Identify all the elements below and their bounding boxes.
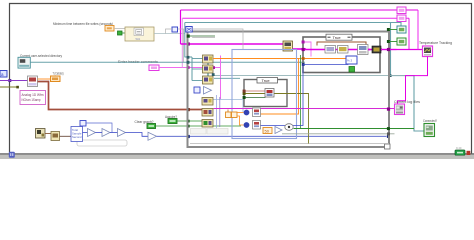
wire T2 to T3: [110, 132, 118, 134]
node6 write file icon: [358, 45, 369, 55]
outer diagram frame: [10, 4, 472, 154]
dark VI icon A: [36, 129, 46, 139]
blue wire C to T1: [83, 132, 88, 134]
wire: node to T terminal (orange): [38, 78, 51, 80]
teal junction dot: [212, 73, 215, 76]
pink string wire across into loop: [159, 67, 221, 69]
express VI (Write To Measurement File style): [125, 27, 154, 41]
magenta continue to right tunnel: [368, 49, 380, 51]
svg-text:%.3: %.3: [347, 59, 353, 63]
triangle node beside: [204, 87, 212, 95]
chart terminal icon: [423, 46, 433, 57]
blue wire T4 into loop and across: [157, 135, 387, 137]
node N5 (bundle) on magenta wire: [283, 41, 293, 51]
olive error wire from left edge, turns down: [0, 86, 19, 88]
blue timing box 2 on loop corner: [186, 27, 192, 33]
loop border tunnels left: [187, 61, 190, 64]
red waveform branch into case1: [246, 90, 266, 92]
string control terminal (pink): [149, 65, 159, 71]
gray vertical x183.5: [183, 29, 185, 62]
white node W1: [253, 108, 261, 117]
horizontal scrollbar left blue icon: [9, 152, 15, 158]
indicator stack node 1 (magenta): [397, 7, 406, 14]
magenta wire N5 to case2: [293, 48, 307, 50]
lavender vertical: [216, 95, 218, 130]
thick magenta horizontal y44: [181, 43, 284, 45]
triangle node T4: [148, 132, 157, 140]
green tunnels on loop right border: [387, 28, 390, 31]
purple DAQmx task wire from left edge: [8, 79, 11, 82]
wire A to B: [45, 133, 51, 135]
gray bottom wire: [190, 143, 389, 145]
svg-text:True: True: [333, 35, 342, 40]
brown wire arc inside case2: [317, 42, 366, 46]
wire: orange const to express VI: [114, 28, 125, 30]
current log files icon: [395, 104, 405, 115]
orange wire into format box: [305, 58, 347, 60]
path indicator icon: [18, 57, 30, 68]
magenta wire y108.5 to current log files: [214, 108, 395, 110]
triangle node T1: [88, 129, 96, 137]
svg-text:Second: Second: [72, 135, 82, 139]
svg-text:50: 50: [265, 129, 270, 134]
violet/pink horizontal (y16.5): [182, 17, 409, 19]
pink wire inside case2: [305, 42, 312, 57]
wire box1 to box2: [178, 28, 187, 30]
olive wire through case1: [246, 93, 266, 95]
dark node on case2 right border: [372, 46, 381, 53]
long teal path wire from directory (y62.3): [31, 61, 306, 63]
orange wires to D nodes: [237, 112, 244, 114]
blue oval D2: [244, 122, 250, 128]
pink vertical bus right of column: [220, 56, 222, 100]
vertical lavender x182.3: [181, 18, 183, 67]
boolean constant (green): [118, 31, 123, 35]
two small orange boxes: [226, 112, 232, 118]
vertical teal x184.5: [184, 23, 186, 58]
triangle node T3: [118, 129, 126, 137]
green wire acquire into loop: [177, 120, 203, 122]
blue oval D1: [244, 110, 250, 116]
indicator stack node 4 (green): [397, 38, 406, 45]
tunnel at loop bottom-right corner: [385, 144, 391, 149]
orange wire from node1 to case2 with branch down: [213, 59, 299, 115]
indicator stack node 2 (magenta): [397, 15, 406, 22]
connected icon: [424, 124, 435, 137]
dark green tunnel + stub on left border: [187, 35, 190, 38]
beige node 3b: [202, 98, 213, 106]
numeric constant (orange): [105, 26, 114, 32]
green boolean Acquire?: [168, 119, 177, 124]
wire B to C: [60, 135, 72, 137]
magenta vertical from chart down to log node: [398, 57, 428, 105]
selector label case2: [326, 34, 352, 40]
blue [n] box: [194, 87, 200, 93]
tunnels on case2 left border: [302, 41, 305, 44]
green wire clear graph: [156, 125, 242, 127]
teal horizontal (y22): [185, 23, 424, 132]
beige node 3: [203, 76, 214, 84]
svg-text:NChan 1Samp: NChan 1Samp: [22, 98, 41, 102]
wire: green const to express VI: [122, 32, 125, 34]
blue wire from W2 up into case2: [261, 65, 305, 126]
magenta wire through case2: [305, 49, 371, 51]
wire: express VI output goes right then up to teal bus: [154, 33, 185, 35]
indicator stack node 3 (teal): [397, 26, 406, 33]
vertical magenta x181: [180, 10, 182, 44]
beige node 4 (waveform input): [202, 109, 213, 117]
orange 50 box: [263, 128, 272, 134]
svg-text:T (Celsius): T (Celsius): [53, 72, 64, 76]
beige node 1: [203, 55, 214, 63]
node5b pair inside case2: [325, 46, 336, 54]
green stubs from loop to nodes 3,4: [389, 29, 397, 31]
Total Samples/Second box C: [71, 127, 83, 142]
T (Celsius) orange terminal: [51, 76, 61, 82]
gray wire y75.3: [214, 75, 414, 77]
thick magenta horizontal top (y8): [181, 9, 419, 11]
svg-text:Temperature Tracking: Temperature Tracking: [419, 41, 452, 45]
blue timing box 1: [172, 27, 178, 32]
blue wire into case2: [305, 63, 349, 66]
triangle node T2: [102, 129, 110, 137]
faint free label outline bottom left: [77, 140, 127, 146]
white oval gate: [285, 124, 293, 131]
teal wire from node3 bottom to case1 area: [214, 77, 240, 79]
faint gray boxes above blue wire: [191, 129, 207, 135]
tunnels on case1: [243, 92, 246, 95]
green constant in case2: [349, 67, 355, 73]
svg-text:Analog 1D Wfm: Analog 1D Wfm: [22, 93, 44, 97]
wire T3 to T4: [126, 133, 149, 137]
white node W2: [253, 121, 261, 130]
green wire from gate to right: [294, 128, 415, 130]
svg-text:True: True: [262, 78, 271, 83]
svg-text:Writ: Writ: [136, 37, 141, 41]
dark green wire in case1: [246, 96, 266, 99]
bottom window gray band: [0, 154, 474, 160]
small gray wires right of box2: [192, 29, 243, 50]
teal vertical through node column: [207, 55, 209, 83]
comparison triangle: [275, 127, 282, 134]
svg-text:Minimum time between file writ: Minimum time between file writes (second…: [53, 22, 113, 26]
blue format string box: [346, 56, 357, 64]
magenta continues to chart node: [397, 49, 423, 51]
label box: Analog 1D Wfm NChan 1Samp: [20, 91, 46, 105]
partially visible control at left edge (blue): [0, 71, 7, 78]
svg-text:Connected?: Connected?: [423, 119, 437, 123]
gray wire lower: [282, 133, 395, 135]
beige VI icon B: [51, 132, 60, 141]
green boolean Clear graph?: [147, 124, 156, 129]
svg-text:9:49: 9:49: [456, 146, 462, 150]
teal feeder inside loop to node column: [191, 57, 193, 81]
magenta wire to loop border: [381, 49, 397, 51]
red dot: [467, 151, 471, 155]
waveform (maroon) wire: node right, down, across into loop: [38, 82, 203, 110]
beige node 5: [202, 120, 213, 128]
green vertical mid: [300, 55, 302, 129]
small blue box above C: [80, 121, 86, 127]
beige node 2: [203, 65, 214, 73]
white node inside case1: [265, 89, 274, 98]
DAQmx Read node: [28, 76, 38, 87]
tunnel on case2 right border: [378, 48, 381, 51]
